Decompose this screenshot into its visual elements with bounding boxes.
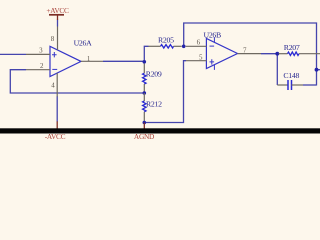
wire U26B feedback top [184,23,317,86]
svg-text:R205: R205 [158,36,174,45]
wire U26A output to node [103,60,144,62]
sheet background [0,0,320,145]
node junction right tap [315,68,319,72]
wire feedback loop pin2 to R209/R212 node [10,70,144,93]
svg-text:8: 8 [51,35,55,43]
wire C148 right to vertical [303,84,317,86]
svg-text:5: 5 [199,54,203,62]
svg-text:+AVCC: +AVCC [46,6,69,15]
pin 7 [238,53,262,55]
power AGND [143,123,145,129]
pin 4 [56,73,58,97]
svg-text:4: 4 [51,82,55,90]
svg-text:R209: R209 [146,70,162,79]
wire AGND node to pin 5 [144,61,186,123]
pin 2 [26,69,50,71]
svg-text:2: 2 [40,62,44,70]
svg-text:R207: R207 [284,43,300,52]
wire C148 branch down [276,54,278,85]
svg-text:1: 1 [87,55,91,63]
pin 1 [81,60,103,62]
svg-text:7: 7 [243,46,247,54]
pin 6 [186,45,207,47]
op-amp U26A [50,46,81,76]
svg-text:6: 6 [197,38,201,46]
pin 3 [26,53,50,55]
node junction AGND [143,121,147,125]
op-amp U26B [206,38,237,68]
resistor R212 [143,93,145,101]
wire node up to R205 [144,46,148,62]
node junction R209/R212 [143,91,147,95]
wire input to pin 3 [0,53,26,55]
svg-text:U26B: U26B [204,30,222,39]
wire pin7 to R207/C148 node [261,53,279,55]
power -AVCC [56,121,58,128]
pin 8 [57,20,59,27]
svg-text:U26A: U26A [74,39,93,48]
node junction output B [275,52,279,56]
svg-text:R212: R212 [146,100,162,109]
resistor R207 [279,53,288,55]
ground bus bar [0,128,320,133]
resistor R209 [143,64,145,74]
power +AVCC [49,14,64,16]
svg-text:3: 3 [39,46,43,54]
svg-text:C148: C148 [283,71,299,80]
node junction pin6 [182,45,186,49]
pin 5 [186,60,207,62]
wire stub right edge at node [317,69,320,71]
capacitor C148 [277,84,288,86]
resistor R205 [149,45,161,47]
node X1 junction [143,60,147,64]
